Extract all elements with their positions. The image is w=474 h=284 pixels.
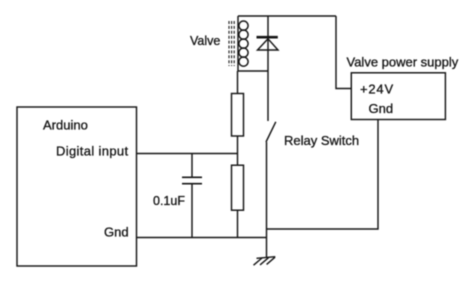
wire power supply Gnd drop: [267, 120, 379, 230]
diode D1 flyback: vertical lead: [267, 16, 269, 71]
inductor L1 valve coil loops: [239, 21, 248, 66]
power supply block outline: [351, 73, 445, 120]
svg-text:Valve power supply: Valve power supply: [347, 55, 459, 70]
wire between R1 and R2: [237, 136, 239, 165]
svg-text:Arduino: Arduino: [43, 118, 88, 133]
wire ground rail from Arduino: [137, 237, 267, 239]
svg-text:Gnd: Gnd: [104, 225, 129, 240]
wire top rail from coil top to power supply drop: [238, 15, 336, 17]
diode D1 triangle: [258, 39, 279, 50]
Arduino block outline: [17, 107, 137, 266]
resistor R1 body: [232, 94, 244, 137]
wire power supply drop and entry: [336, 16, 351, 89]
wire relay lower lead down to ground: [266, 142, 268, 258]
resistor R2 body: [232, 165, 244, 210]
wire digital input net: [137, 153, 238, 155]
wire coil/diode bottom rail: [238, 70, 268, 72]
svg-text:Valve: Valve: [190, 34, 220, 48]
svg-text:+24V: +24V: [360, 82, 394, 97]
resistor R2 bottom lead: [237, 210, 239, 237]
ground symbol bar: [257, 257, 276, 259]
resistor R1 top lead: [237, 71, 239, 94]
capacitor C1 plates: [182, 176, 202, 178]
svg-text:Relay Switch: Relay Switch: [284, 133, 359, 148]
wire coil left vertical: [237, 16, 239, 71]
svg-text:Digital input: Digital input: [56, 144, 129, 159]
switch S1 relay blade: [266, 122, 276, 142]
ground symbol hatch strokes: [254, 257, 276, 265]
capacitor C1 bottom lead: [191, 184, 193, 238]
wire relay upper lead: [267, 71, 269, 121]
inductor L1 core dashed lines: [229, 21, 234, 66]
diode D1 cathode bar: [257, 36, 278, 39]
capacitor C1 top lead: [191, 154, 193, 178]
svg-text:Gnd: Gnd: [369, 101, 394, 116]
svg-text:0.1uF: 0.1uF: [153, 194, 185, 208]
